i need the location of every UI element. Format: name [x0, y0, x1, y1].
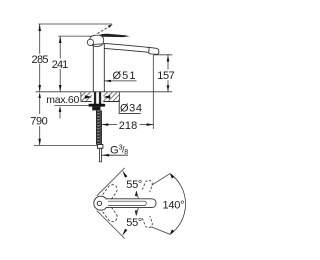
hose braid texture — [96, 111, 101, 144]
ghost spout upper (55° position, dashed) — [103, 185, 117, 201]
leg line lower 55° — [97, 211, 125, 239]
arrow G3/8 — [102, 154, 109, 157]
ghost spout end upper (140° limit, dashed) — [142, 180, 152, 192]
leg line upper 55° — [97, 168, 125, 196]
extension line 218 (spout outlet vertical) — [152, 55, 154, 129]
counter left edge — [80, 92, 82, 102]
mounting nut — [92, 107, 100, 111]
label 790 — [39, 98, 41, 114]
dimension line 218 — [102, 124, 118, 126]
spout top line — [104, 43, 149, 47]
top view spout capsule — [107, 199, 157, 208]
label 157 with halo — [157, 70, 178, 81]
extension line top (285 ref at lever top) — [39, 23, 113, 25]
arrow lower 55° — [122, 229, 127, 236]
lever knob — [90, 35, 104, 46]
arrow 218 left — [102, 123, 109, 126]
svg-text:G: G — [110, 144, 119, 156]
55° mini arc upper — [136, 191, 138, 199]
label 241 with halo — [51, 59, 70, 70]
svg-text:790: 790 — [30, 116, 48, 128]
lever blade — [98, 34, 130, 37]
Ø34 arrow left — [85, 95, 92, 98]
dimension line 157 — [167, 55, 169, 92]
hose end tube — [99, 148, 101, 162]
hatch right section — [104, 92, 120, 101]
dimension line 285 — [39, 24, 41, 92]
svg-text:285: 285 — [32, 54, 49, 66]
faucet body cap line — [93, 43, 104, 46]
arrow 285 bottom — [38, 85, 41, 92]
shank left bar — [94, 92, 96, 104]
label 285 halo — [31, 54, 50, 64]
arrow 157 top — [167, 55, 170, 62]
top view spout inner wall bottom — [108, 204, 145, 206]
mounting washer — [89, 104, 106, 107]
55° mini arc lower — [136, 208, 138, 216]
flexible hose braid — [96, 110, 101, 144]
leg to 140° arc lower — [151, 227, 170, 234]
faucet body right edge — [103, 44, 105, 92]
140° arc — [170, 174, 186, 235]
arrow 140° arc bottom — [170, 230, 174, 235]
svg-text:55°: 55° — [126, 217, 142, 229]
label Ø51 with leader — [105, 80, 137, 82]
max.60 arrow tail — [59, 111, 61, 119]
counter bottom line left — [81, 101, 92, 103]
max.60 lower extension line — [54, 105, 89, 107]
svg-text:55°: 55° — [126, 179, 142, 191]
arrow 140° arc top — [170, 173, 174, 178]
hose end collar — [97, 145, 103, 149]
lever raised position dash-dot line — [97, 27, 109, 34]
top view cartridge circle — [97, 201, 101, 205]
ghost spout end lower (140° limit, dashed) — [142, 216, 152, 228]
max.60 arrow bottom — [59, 106, 62, 112]
counter bottom line right and leader step to Ø34 — [103, 102, 141, 114]
lever raised arrow — [108, 24, 113, 28]
svg-text:8: 8 — [124, 149, 128, 156]
svg-text:218: 218 — [119, 120, 138, 132]
svg-text:157: 157 — [157, 70, 175, 82]
arrow 157 bottom — [167, 85, 170, 91]
arrow 790 bottom — [38, 139, 41, 146]
counter top reference line — [36, 91, 173, 93]
Ø34 arrow right — [103, 95, 110, 98]
extension line spout outlet (157 ref) — [154, 54, 172, 56]
dimension line 241 — [59, 36, 61, 92]
arrow mini arc upper — [135, 191, 137, 197]
arrow upper 55° — [122, 171, 127, 178]
arrow mini arc lower — [135, 210, 137, 216]
svg-text:Ø51: Ø51 — [113, 70, 136, 82]
ghost spout lower (55° position, dashed) — [103, 206, 117, 222]
arrow 218 right — [147, 123, 154, 126]
arrow Ø51 — [104, 80, 111, 82]
top view spout inner end cap — [145, 201, 146, 205]
spout bottom line — [104, 48, 148, 52]
hatch left section — [81, 92, 92, 101]
svg-text:241: 241 — [52, 59, 69, 71]
knob lower lobe — [87, 39, 93, 45]
top view spout inner wall top — [108, 200, 145, 202]
arrow 285 top — [38, 24, 41, 31]
svg-text:max.60: max.60 — [46, 94, 79, 106]
svg-text:140°: 140° — [163, 200, 185, 212]
arrow 241 bottom (counter top) — [59, 85, 62, 92]
arrow 241 top — [59, 36, 62, 43]
spout aerator tip — [149, 47, 159, 54]
label G3/8 leader — [102, 154, 128, 156]
faucet body left edge — [92, 45, 94, 92]
top view body circle — [94, 196, 108, 210]
leg to 140° arc upper — [152, 174, 170, 186]
counter right edge — [118, 92, 120, 102]
shank right bar — [99, 92, 101, 104]
extension line (241 ref at lever rest) — [58, 35, 92, 37]
arrow 790 top — [39, 92, 41, 98]
extension line hose end (790 ref) — [34, 145, 97, 147]
svg-text:Ø34: Ø34 — [120, 103, 142, 115]
